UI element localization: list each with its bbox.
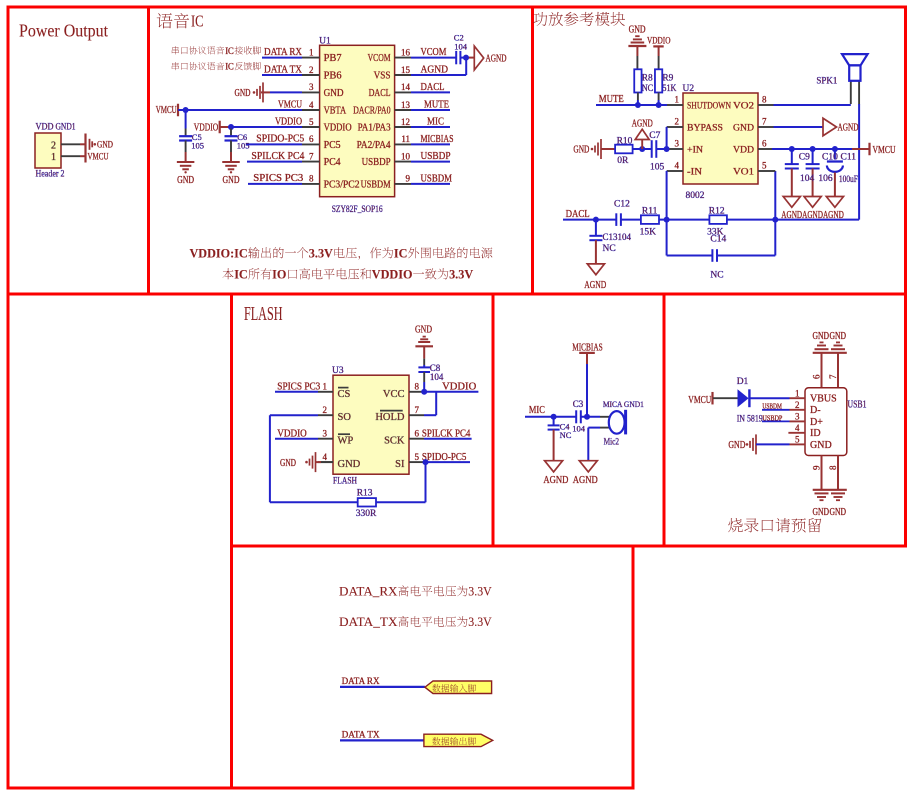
svg-text:3: 3 xyxy=(309,82,314,92)
svg-text:D-: D- xyxy=(810,405,821,416)
svg-text:7: 7 xyxy=(762,117,767,127)
svg-text:5: 5 xyxy=(309,117,314,127)
svg-text:PC4: PC4 xyxy=(324,157,341,168)
svg-text:Mic2: Mic2 xyxy=(604,437,620,447)
svg-text:VBTA: VBTA xyxy=(324,105,347,116)
svg-text:VDDIO: VDDIO xyxy=(275,116,302,127)
svg-text:DATA RX: DATA RX xyxy=(264,47,303,58)
svg-text:VO2: VO2 xyxy=(733,101,754,111)
svg-text:SPIDO-PC5: SPIDO-PC5 xyxy=(422,452,467,463)
svg-text:MICBIAS: MICBIAS xyxy=(421,134,454,145)
svg-text:GND: GND xyxy=(324,88,344,99)
svg-text:VDDIO: VDDIO xyxy=(442,382,476,393)
svg-text:PA2/PA4: PA2/PA4 xyxy=(357,140,391,151)
svg-text:C3: C3 xyxy=(573,399,584,409)
svg-text:6: 6 xyxy=(812,374,822,379)
svg-text:C12: C12 xyxy=(614,200,630,210)
svg-text:IC: IC xyxy=(234,268,248,282)
svg-text:VMCU: VMCU xyxy=(156,105,178,116)
svg-text:R13: R13 xyxy=(357,489,373,499)
svg-text:15K: 15K xyxy=(640,228,657,238)
svg-text:5: 5 xyxy=(415,452,420,462)
svg-text:C9: C9 xyxy=(799,153,810,163)
svg-text:GND: GND xyxy=(97,141,113,151)
svg-text:13: 13 xyxy=(401,100,411,110)
svg-text:1: 1 xyxy=(795,388,800,398)
svg-text:Header 2: Header 2 xyxy=(36,170,65,180)
svg-text:R11: R11 xyxy=(642,206,658,216)
svg-text:IC: IC xyxy=(225,47,234,57)
svg-text:SCK: SCK xyxy=(384,436,405,447)
svg-text:3.3V: 3.3V xyxy=(309,246,333,260)
svg-text:AGND: AGND xyxy=(838,123,859,134)
svg-text:PA1/PA3: PA1/PA3 xyxy=(358,122,391,133)
svg-text:BYPASS: BYPASS xyxy=(687,123,723,133)
svg-text:SZY82F_SOP16: SZY82F_SOP16 xyxy=(332,205,383,215)
svg-text:104: 104 xyxy=(430,372,444,382)
svg-text:MICBIAS: MICBIAS xyxy=(572,342,603,353)
svg-text:7: 7 xyxy=(828,374,838,379)
svg-text:AGND: AGND xyxy=(486,54,507,65)
svg-text:10: 10 xyxy=(401,151,411,161)
svg-text:MICA GND1: MICA GND1 xyxy=(603,399,644,409)
svg-text:C7: C7 xyxy=(649,131,660,141)
svg-text:4: 4 xyxy=(795,423,800,433)
svg-text:FLASH: FLASH xyxy=(333,477,357,487)
svg-text:7: 7 xyxy=(415,405,420,415)
svg-text:1: 1 xyxy=(51,152,56,163)
svg-text:SHUTDOWN: SHUTDOWN xyxy=(687,101,731,111)
svg-text:9: 9 xyxy=(812,465,822,470)
svg-text:IN 5819: IN 5819 xyxy=(737,415,763,425)
svg-text:GND: GND xyxy=(235,88,251,99)
svg-text:6: 6 xyxy=(415,428,420,438)
svg-text:12: 12 xyxy=(401,117,410,127)
svg-text:5: 5 xyxy=(795,435,800,445)
svg-text:HOLD: HOLD xyxy=(375,412,405,423)
svg-text:R10: R10 xyxy=(617,137,633,147)
svg-text:3.3V: 3.3V xyxy=(468,584,492,599)
svg-text:NC: NC xyxy=(710,271,723,281)
svg-text:2: 2 xyxy=(51,140,56,151)
svg-text:FLASH: FLASH xyxy=(244,303,283,325)
svg-text:D1: D1 xyxy=(737,377,749,387)
svg-text:SPILCK PC4: SPILCK PC4 xyxy=(422,428,471,439)
svg-text:3.3V: 3.3V xyxy=(468,614,492,629)
svg-text:NC: NC xyxy=(603,244,616,254)
svg-text:IO: IO xyxy=(272,268,286,282)
svg-text:C13: C13 xyxy=(603,232,619,242)
svg-text:USB1: USB1 xyxy=(848,399,867,410)
svg-text:1: 1 xyxy=(675,95,680,105)
svg-text:105: 105 xyxy=(650,163,665,173)
svg-text:U3: U3 xyxy=(332,366,344,376)
svg-text:VMCU: VMCU xyxy=(278,99,303,110)
svg-text:GND: GND xyxy=(177,175,194,186)
svg-text:AGNDAGNDAGND: AGNDAGNDAGND xyxy=(781,210,844,221)
svg-text:USBDP: USBDP xyxy=(362,157,391,168)
svg-text:15: 15 xyxy=(401,65,411,75)
svg-text:16: 16 xyxy=(401,47,411,57)
svg-text:VDD: VDD xyxy=(36,122,54,132)
svg-text:4: 4 xyxy=(323,452,328,462)
svg-text:DACR/PA0: DACR/PA0 xyxy=(353,105,391,116)
svg-text:8: 8 xyxy=(415,382,420,392)
svg-text:AGND: AGND xyxy=(584,280,606,291)
svg-text:GND: GND xyxy=(733,123,754,133)
svg-text:104: 104 xyxy=(800,174,815,184)
svg-text:VDDIO: VDDIO xyxy=(324,122,352,133)
svg-text:MUTE: MUTE xyxy=(424,100,449,111)
svg-text:AGND: AGND xyxy=(543,475,568,486)
svg-text:MIC: MIC xyxy=(427,117,444,128)
svg-text:DACL: DACL xyxy=(369,88,391,99)
svg-text:3: 3 xyxy=(323,428,328,438)
svg-text:GND: GND xyxy=(573,144,589,155)
svg-text:0R: 0R xyxy=(617,156,629,166)
svg-text:VMCU: VMCU xyxy=(688,395,712,406)
svg-text:51K: 51K xyxy=(662,84,676,94)
svg-text:DATA TX: DATA TX xyxy=(264,65,303,76)
svg-text:8: 8 xyxy=(762,95,767,105)
svg-text:DATA_RX: DATA_RX xyxy=(339,584,398,599)
svg-text:DATA RX: DATA RX xyxy=(342,677,380,687)
svg-text:SI: SI xyxy=(395,459,405,470)
svg-text:VCOM: VCOM xyxy=(421,47,448,58)
svg-text:VSS: VSS xyxy=(374,70,391,81)
svg-text:6: 6 xyxy=(762,139,767,149)
svg-text:4: 4 xyxy=(309,100,314,110)
svg-text:VDDIO: VDDIO xyxy=(277,428,307,439)
svg-text:GND: GND xyxy=(629,25,646,36)
svg-text:2: 2 xyxy=(675,117,680,127)
svg-text:ID: ID xyxy=(810,428,821,439)
svg-text:GND: GND xyxy=(830,507,847,518)
svg-text:8: 8 xyxy=(828,465,838,470)
svg-text:AGND: AGND xyxy=(573,475,598,486)
svg-text:7: 7 xyxy=(309,151,314,161)
svg-text:R9: R9 xyxy=(662,74,673,84)
svg-text:MIC: MIC xyxy=(529,405,545,416)
svg-text:3.3V: 3.3V xyxy=(449,268,473,282)
svg-text:C11: C11 xyxy=(841,153,857,163)
svg-text:104: 104 xyxy=(454,41,468,51)
svg-text:+IN: +IN xyxy=(687,145,703,155)
svg-text:3: 3 xyxy=(795,412,800,422)
svg-text:GND1: GND1 xyxy=(56,122,76,132)
svg-text:VDDIO:IC: VDDIO:IC xyxy=(190,246,248,260)
svg-text:PC3/PC2: PC3/PC2 xyxy=(324,179,360,190)
svg-text:2: 2 xyxy=(309,65,314,75)
svg-text:SPIDO-PC5: SPIDO-PC5 xyxy=(256,134,304,145)
svg-text:IC: IC xyxy=(225,63,234,73)
svg-text:VCOM: VCOM xyxy=(368,53,391,64)
svg-text:R12: R12 xyxy=(709,206,725,216)
svg-text:IC: IC xyxy=(191,12,204,31)
svg-text:8002: 8002 xyxy=(686,191,705,201)
svg-text:D+: D+ xyxy=(810,417,823,428)
svg-text:-IN: -IN xyxy=(687,167,702,177)
svg-text:105: 105 xyxy=(191,141,204,151)
svg-text:USBDM: USBDM xyxy=(361,179,391,190)
svg-text:GND: GND xyxy=(728,440,745,451)
svg-text:9: 9 xyxy=(406,174,411,184)
svg-text:PC5: PC5 xyxy=(324,140,341,151)
svg-text:100uF: 100uF xyxy=(839,175,858,185)
svg-text:DACL: DACL xyxy=(566,209,590,220)
svg-text:NC: NC xyxy=(642,84,654,94)
svg-text:2: 2 xyxy=(323,405,328,415)
svg-text:DATA TX: DATA TX xyxy=(342,730,380,740)
svg-text:USBDP: USBDP xyxy=(421,151,451,162)
svg-text:GND: GND xyxy=(415,325,432,336)
svg-text:PB7: PB7 xyxy=(324,53,342,64)
svg-text:NC: NC xyxy=(560,430,572,440)
svg-text:VMCU: VMCU xyxy=(873,145,897,156)
svg-text:104: 104 xyxy=(618,232,632,242)
svg-text:VCC: VCC xyxy=(383,389,405,400)
svg-text:DACL: DACL xyxy=(421,82,445,93)
svg-text:14: 14 xyxy=(401,82,411,92)
svg-text:GND: GND xyxy=(338,459,361,470)
svg-text:3: 3 xyxy=(675,139,680,149)
svg-text:USBDM: USBDM xyxy=(421,174,453,185)
svg-text:VO1: VO1 xyxy=(733,167,754,177)
svg-text:330R: 330R xyxy=(356,509,377,519)
svg-text:CS: CS xyxy=(338,389,351,400)
svg-text:VDDIO: VDDIO xyxy=(647,35,671,45)
svg-text:IC: IC xyxy=(394,246,408,260)
svg-text:106: 106 xyxy=(818,174,833,184)
svg-text:VDDIO: VDDIO xyxy=(372,268,413,282)
svg-text:GND: GND xyxy=(810,440,832,451)
svg-text:AGND: AGND xyxy=(632,119,653,130)
svg-text:VBUS: VBUS xyxy=(810,394,837,405)
svg-text:GND: GND xyxy=(223,175,240,186)
svg-text:MUTE: MUTE xyxy=(599,94,624,105)
svg-text:GND: GND xyxy=(280,458,296,469)
svg-text:C10: C10 xyxy=(822,153,838,163)
svg-text:8: 8 xyxy=(309,174,314,184)
svg-text:6: 6 xyxy=(309,134,314,144)
svg-text:VDD: VDD xyxy=(733,145,754,155)
svg-text:R8: R8 xyxy=(642,74,653,84)
svg-text:2: 2 xyxy=(795,400,800,410)
svg-text:SPICS PC3: SPICS PC3 xyxy=(253,173,303,184)
svg-text:SPILCK PC4: SPILCK PC4 xyxy=(251,151,304,162)
svg-text:C14: C14 xyxy=(710,235,726,245)
svg-text:GND: GND xyxy=(830,331,847,342)
svg-text:Power Output: Power Output xyxy=(19,21,108,41)
svg-text:WP: WP xyxy=(338,436,354,447)
svg-text:VMCU: VMCU xyxy=(88,153,109,163)
svg-text:4: 4 xyxy=(675,161,680,171)
svg-text:104: 104 xyxy=(572,424,586,434)
svg-text:AGND: AGND xyxy=(421,65,449,76)
svg-text:11: 11 xyxy=(401,134,410,144)
svg-text:1: 1 xyxy=(323,382,328,392)
svg-text:U1: U1 xyxy=(319,37,331,47)
svg-text:PB6: PB6 xyxy=(324,70,342,81)
svg-text:5: 5 xyxy=(762,161,767,171)
svg-text:U2: U2 xyxy=(683,84,695,94)
svg-text:SO: SO xyxy=(338,412,352,423)
svg-text:DATA_TX: DATA_TX xyxy=(339,614,398,629)
svg-text:105: 105 xyxy=(237,141,250,151)
svg-text:GND: GND xyxy=(813,331,830,342)
svg-text:GND: GND xyxy=(813,507,830,518)
svg-text:SPK1: SPK1 xyxy=(816,77,837,87)
svg-text:1: 1 xyxy=(309,47,314,57)
